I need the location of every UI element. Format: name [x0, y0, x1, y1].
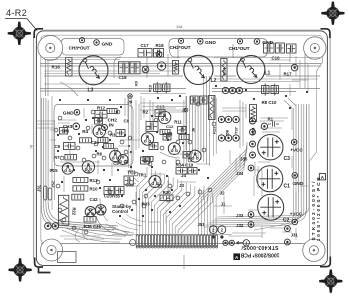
capacitor C16 pair: [264, 43, 275, 53]
svg-text:J32: J32: [236, 223, 244, 228]
wire top right extras: [270, 56, 308, 96]
svg-text:R6: R6: [97, 151, 103, 156]
transistor TR1: [149, 176, 161, 188]
svg-text:+VCC: +VCC: [290, 148, 303, 153]
svg-text:R1: R1: [268, 116, 274, 121]
wire central vertical bundle: [190, 76, 210, 166]
resistor R24 vertical: [250, 105, 257, 122]
wire bottom extras: [60, 228, 284, 239]
transistor Q4: [168, 143, 180, 155]
svg-text:Control: Control: [112, 209, 128, 214]
svg-text:R11: R11: [174, 119, 182, 124]
wire mid horizontal bus: [40, 89, 320, 92]
svg-text:R7: R7: [54, 155, 60, 160]
resistor R20 vertical: [209, 96, 216, 120]
svg-text:R16: R16: [52, 65, 61, 70]
transistor Q11: [96, 205, 106, 215]
extra small caps center: [163, 134, 171, 141]
resistor R10: [73, 186, 88, 191]
pad CH3 IN: [73, 123, 80, 130]
capacitor C17: [138, 49, 152, 58]
diode pair near C18: [119, 62, 130, 74]
svg-text:R17: R17: [284, 72, 293, 77]
transistor Q9: [118, 155, 128, 165]
svg-text:J6: J6: [191, 127, 196, 132]
circled 2 pads: [209, 226, 217, 234]
svg-text:R3: R3: [110, 133, 116, 138]
pads and circled 1 with arrow: [223, 240, 228, 245]
pad GND top-mid: [198, 39, 204, 45]
capacitor C3: [258, 135, 283, 160]
wire guard ring top-left labels: [61, 39, 124, 56]
svg-text:R8 C10: R8 C10: [262, 100, 277, 105]
corner bracket bottom-left: [35, 258, 51, 273]
svg-text:2: 2: [212, 228, 215, 233]
inductor L1: [237, 56, 265, 84]
fiducial target bottom-left: [9, 258, 32, 281]
wire right bundle to pins: [203, 104, 309, 227]
pad CH1 OUT: [237, 39, 242, 44]
svg-text:C15: C15: [50, 168, 59, 173]
svg-text:C1: C1: [284, 184, 291, 190]
wire bottom left curls: [62, 198, 133, 242]
pad CH3 OUT: [79, 38, 84, 43]
svg-text:TR1: TR1: [138, 173, 147, 178]
pad above striped pair: [156, 51, 162, 57]
wire bottom right connects: [248, 170, 296, 240]
wire extra mid connects: [128, 108, 232, 224]
svg-text:R22: R22: [72, 208, 77, 216]
mounting hole bottom-right: [303, 239, 325, 261]
fiducial target top-right: [321, 2, 344, 25]
svg-text:R36 C31: R36 C31: [84, 224, 102, 229]
board outline outer: [36, 31, 327, 266]
svg-text:C42: C42: [90, 197, 99, 202]
wire bottom keepout line: [41, 243, 309, 245]
wire guard ring input stage: [54, 105, 133, 167]
svg-text:L1: L1: [265, 71, 271, 77]
inductor L2: [184, 55, 213, 84]
transistor Q7: [82, 161, 94, 173]
capacitor C2: [258, 194, 284, 220]
resistor R13: [73, 177, 88, 182]
wire keepout inner outline: [41, 35, 323, 243]
svg-text:C20R35: C20R35: [104, 193, 121, 198]
svg-text:L3: L3: [88, 88, 94, 94]
extra small ring pads dense block: [54, 102, 216, 234]
small dot pads scattered: [52, 86, 307, 216]
corner bracket top-left: [34, 29, 43, 38]
transistor Q6: [62, 163, 73, 174]
wire fan extension left: [112, 214, 146, 233]
svg-text:+VCC: +VCC: [290, 211, 303, 216]
transistor Q1: [93, 125, 105, 137]
wire central fan down-left to pin header: [137, 167, 212, 236]
right revision box A: [319, 174, 325, 180]
svg-text:C13: C13: [156, 104, 165, 109]
wire extra left block stubs: [50, 108, 130, 192]
wire more density batch2: [37, 96, 262, 196]
pad GND top-right: [254, 39, 260, 45]
capacitor C9: [64, 143, 76, 150]
svg-text:R23: R23: [211, 126, 216, 134]
extra resistors left-middle block: [80, 138, 92, 143]
svg-text:C6: C6: [84, 169, 90, 174]
svg-text:IN: IN: [64, 129, 69, 134]
pad grid right of center: [218, 116, 224, 122]
svg-text:J3: J3: [179, 183, 184, 188]
pad +VCC upper: [291, 139, 297, 145]
svg-text:118: 118: [176, 24, 183, 29]
fiducial target bottom-right: [319, 270, 342, 293]
pad column J35 area: [250, 118, 256, 124]
svg-text:R34 C19: R34 C19: [176, 163, 194, 168]
resistor R7: [65, 155, 77, 160]
svg-text:C18: C18: [119, 75, 128, 80]
svg-text:J34: J34: [236, 171, 244, 176]
pad row below L1: [222, 87, 228, 93]
svg-text:C2: C2: [283, 218, 290, 224]
vertical part above striped pair: [173, 61, 179, 75]
wire extra diag right: [258, 98, 308, 210]
pad +VCC lower: [292, 219, 298, 225]
svg-text:GND: GND: [293, 181, 304, 187]
transistor Q5: [189, 150, 201, 162]
svg-text:R10: R10: [90, 186, 99, 191]
pad CH2 IN: [102, 125, 108, 131]
capacitor C1: [257, 166, 283, 192]
striped component pair near L2: [154, 82, 162, 94]
capacitor C42: [72, 194, 84, 200]
svg-text:C3: C3: [284, 156, 291, 162]
svg-text:J9: J9: [127, 100, 133, 105]
pads bottom-left pair: [45, 223, 52, 230]
svg-text:GND: GND: [205, 40, 216, 46]
svg-text:CH3*OUT: CH3*OUT: [69, 45, 90, 51]
svg-text:GND: GND: [262, 40, 273, 46]
svg-text:CH2*OUT: CH2*OUT: [170, 45, 191, 51]
svg-text:R18: R18: [156, 43, 165, 48]
svg-text:R30: R30: [163, 190, 172, 195]
svg-text:J2: J2: [220, 191, 225, 196]
resistor R22 vertical: [58, 195, 68, 225]
svg-text:C5: C5: [113, 161, 119, 166]
wire right bundle curves extra: [254, 106, 306, 230]
board outline right double edge: [329, 37, 331, 259]
connector footprint bottom-left: [58, 252, 77, 263]
svg-text:J33: J33: [236, 213, 244, 218]
inductor L3: [79, 56, 108, 85]
svg-text:2: 2: [221, 228, 224, 233]
svg-text:CH1*OUT: CH1*OUT: [229, 46, 250, 52]
svg-text:T37: T37: [234, 126, 239, 134]
wire extra verticals right of guard ring: [129, 96, 139, 168]
svg-text:J53: J53: [198, 222, 206, 227]
wire right fan diagonals: [198, 142, 247, 236]
resistor R17 label and pad: [291, 64, 298, 71]
corner bracket bottom-right: [320, 257, 330, 267]
pad GND top-left: [94, 40, 100, 46]
wire guard ring top-mid labels: [169, 39, 267, 58]
transistor Q3: [141, 133, 153, 145]
transistor Q2: [158, 111, 170, 123]
svg-text:GND: GND: [63, 111, 74, 117]
fold tick bottom-center: [183, 255, 185, 269]
transistor Q10: [85, 207, 95, 217]
pin header pad dots: [136, 245, 217, 247]
extra small rects below L2: [191, 96, 199, 104]
mounting hole bottom-left: [41, 239, 63, 261]
svg-text:4-R2: 4-R2: [6, 8, 27, 18]
svg-text:100S*/200S* PCB: 100S*/200S* PCB: [316, 177, 321, 242]
pin header loop row: [136, 235, 217, 248]
large pad near L3 right: [157, 62, 165, 70]
wire left vertical bundle: [42, 98, 119, 232]
svg-text:GND: GND: [102, 41, 113, 47]
svg-text:C17: C17: [141, 43, 150, 48]
mounting hole top-left: [38, 36, 63, 61]
resistor R16: [66, 58, 73, 77]
wire misc middle: [120, 96, 246, 158]
wire top horizontal bus: [40, 64, 321, 77]
wire density batch3 horizontals: [44, 71, 318, 121]
svg-text:R9: R9: [135, 81, 139, 86]
wire density batch3 verticals: [52, 96, 216, 210]
dimension line 118 top: [37, 28, 329, 30]
wire bottom pre-header line: [112, 234, 232, 236]
svg-text:STK403-000S/: STK403-000S/: [241, 244, 279, 250]
svg-text:R14: R14: [222, 67, 227, 75]
pad with cross near C18: [142, 66, 149, 73]
wire extra mid horizontals: [140, 103, 186, 110]
resistor R14: [221, 59, 227, 82]
svg-text:J4: J4: [181, 173, 186, 178]
svg-text:J35: J35: [240, 157, 248, 162]
pad GND right with label: [292, 173, 298, 179]
board outline left double edge: [33, 37, 35, 259]
svg-text:C12: C12: [166, 124, 174, 129]
transistor Q8: [110, 150, 121, 161]
wire upper interconnects: [46, 44, 306, 96]
resistor R18: [154, 49, 164, 58]
svg-text:IN: IN: [109, 122, 114, 127]
svg-text:R12: R12: [97, 105, 106, 110]
svg-text:78: 78: [30, 145, 34, 149]
fiducial target top-left: [8, 22, 31, 45]
pin header left entry loops: [130, 239, 136, 245]
striped component pair R8 C10: [262, 84, 270, 96]
pad GND left with label: [74, 110, 80, 116]
svg-text:R19: R19: [149, 85, 153, 92]
mounting hole top-right: [304, 37, 326, 59]
svg-text:100S/200S* PCB: 100S/200S* PCB: [240, 251, 279, 257]
svg-text:C9: C9: [55, 144, 61, 149]
corner bracket top-right: [321, 29, 330, 38]
bottom revision box A: [233, 253, 240, 260]
svg-text:J31: J31: [291, 232, 299, 237]
svg-text:A: A: [321, 175, 325, 180]
pad CH2 OUT: [178, 38, 183, 43]
wire extra horizontals top: [44, 58, 320, 60]
svg-text:J51: J51: [37, 184, 42, 192]
